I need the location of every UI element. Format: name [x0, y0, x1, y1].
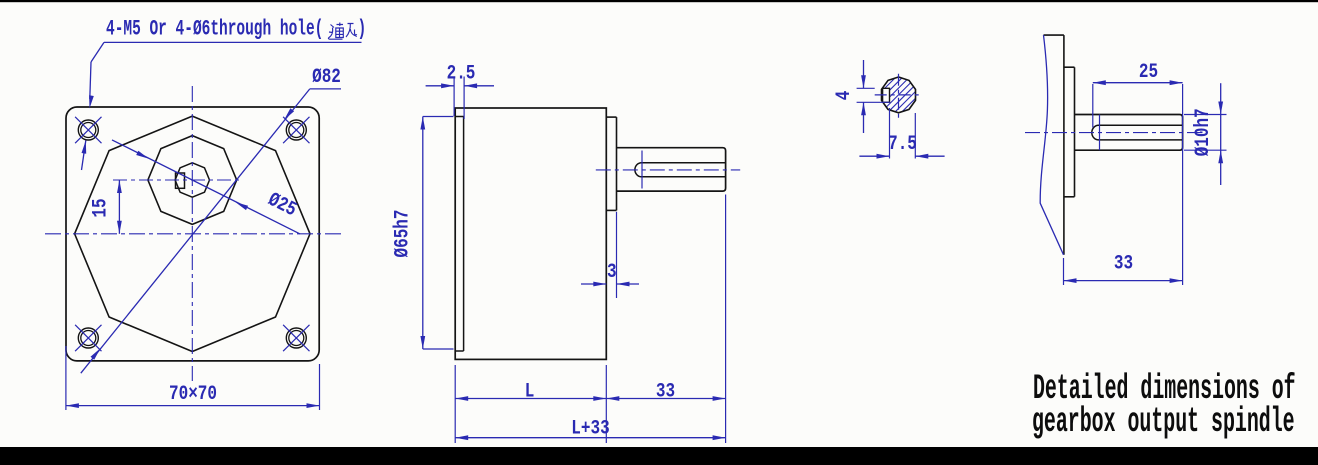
svg-text:4: 4 — [834, 90, 856, 100]
svg-text:7.5: 7.5 — [888, 134, 917, 156]
svg-text:): ) — [358, 17, 367, 42]
svg-text:2.5: 2.5 — [447, 63, 476, 85]
svg-text:33: 33 — [656, 381, 675, 403]
svg-text:Ø82: Ø82 — [312, 67, 341, 89]
svg-text:Ø65h7: Ø65h7 — [392, 209, 414, 257]
svg-text:L+33: L+33 — [571, 418, 609, 440]
svg-text:33: 33 — [1114, 253, 1133, 275]
svg-text:4-M5 Or 4-Ø6through hole(: 4-M5 Or 4-Ø6through hole( — [106, 17, 323, 42]
svg-text:Ø10h7: Ø10h7 — [1193, 108, 1215, 156]
svg-text:3: 3 — [607, 262, 617, 284]
svg-text:70×70: 70×70 — [169, 384, 217, 406]
svg-text:25: 25 — [1139, 61, 1158, 83]
svg-text:15: 15 — [90, 198, 112, 217]
svg-text:L: L — [525, 381, 535, 403]
